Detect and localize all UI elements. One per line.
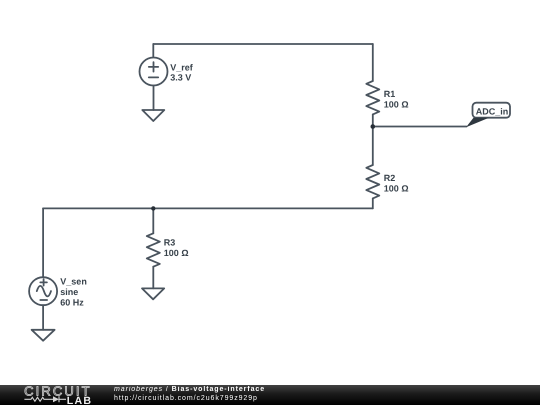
- svg-text:ADC_in: ADC_in: [476, 107, 509, 117]
- svg-text:3.3 V: 3.3 V: [170, 73, 191, 83]
- wire node to ADC_in flag: [373, 126, 467, 128]
- resistor R2: [366, 165, 379, 198]
- wire V_sen bottom to ground: [42, 305, 44, 330]
- voltage source V_ref: [140, 58, 168, 86]
- voltage source V_sen: [29, 277, 57, 305]
- svg-text:V_sen: V_sen: [60, 277, 87, 287]
- junction node at R1/R2 divider: [371, 124, 376, 129]
- svg-text:R3: R3: [164, 238, 176, 248]
- svg-text:100 Ω: 100 Ω: [384, 99, 409, 109]
- svg-text:60 Hz: 60 Hz: [60, 297, 84, 307]
- junction node at R3 top: [151, 206, 155, 210]
- ground under V_ref: [142, 110, 164, 121]
- wire R1 bottom to node: [372, 114, 374, 126]
- wire R2 bottom to bottom rail: [372, 198, 374, 208]
- svg-text:100 Ω: 100 Ω: [164, 248, 189, 258]
- logo resistor-diode symbol: [24, 396, 66, 402]
- wire V_sen top to bottom rail: [42, 208, 44, 277]
- svg-text:V_ref: V_ref: [170, 62, 194, 72]
- wire V_ref bottom to ground: [153, 86, 155, 111]
- wire from V_ref top to top rail corner: [152, 44, 154, 58]
- svg-text:100 Ω: 100 Ω: [384, 183, 409, 193]
- svg-text:R1: R1: [384, 89, 396, 99]
- wire top rail: [153, 43, 372, 45]
- flag ADC_in: [473, 103, 511, 118]
- svg-text:R2: R2: [384, 173, 396, 183]
- wire R3 bottom to ground: [152, 267, 154, 289]
- wire node to R2 top: [372, 127, 374, 166]
- resistor R1: [366, 81, 379, 114]
- credit text: [114, 386, 265, 403]
- resistor R3: [147, 233, 160, 266]
- ground under V_sen: [32, 330, 55, 341]
- wire bottom rail: [43, 207, 373, 209]
- flag ADC_in tail: [466, 118, 489, 128]
- footer bar: [0, 385, 540, 405]
- svg-text:LAB: LAB: [67, 395, 93, 405]
- wire junction to R3: [152, 208, 154, 233]
- ground under R3: [142, 288, 164, 299]
- wire top rail down to R1: [372, 44, 374, 81]
- svg-text:sine: sine: [60, 287, 78, 297]
